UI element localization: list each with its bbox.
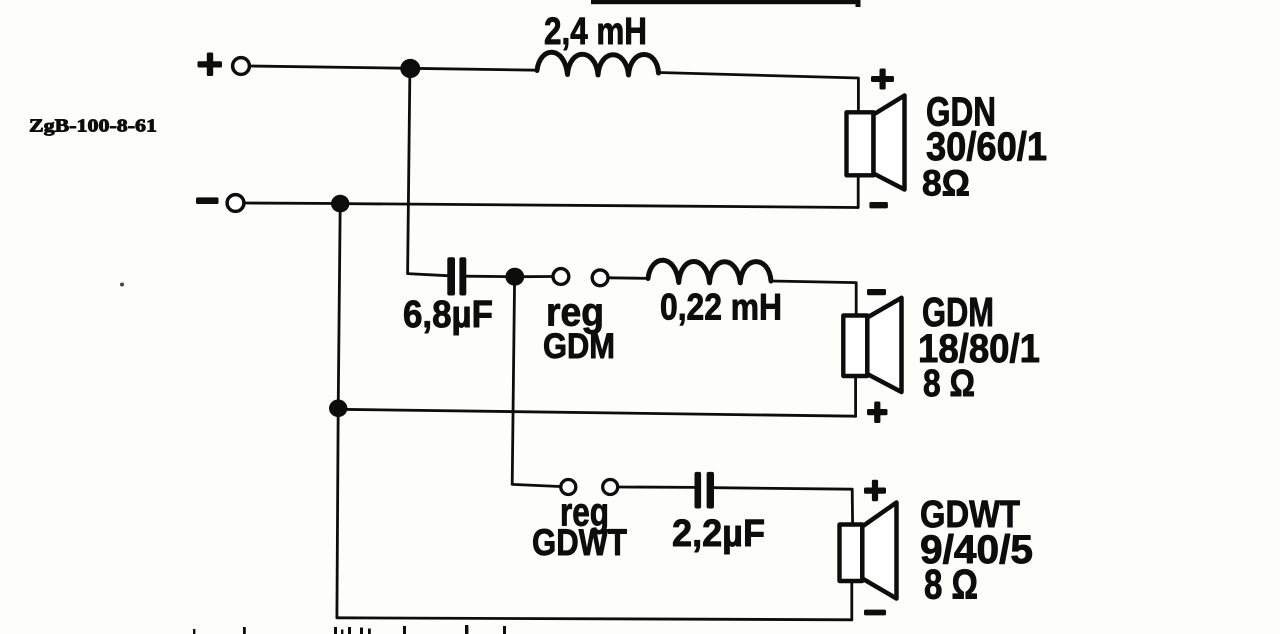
terminal - (open circle): [227, 195, 244, 212]
wire node B to reg GDM circle: [522, 275, 552, 278]
svg-text:8 Ω: 8 Ω: [923, 363, 975, 405]
cropped caption fragments bottom: [193, 625, 506, 634]
plus input label: [198, 53, 223, 77]
label GDN speaker: [922, 89, 1047, 204]
capacitor C1 6,8 uF: [447, 257, 466, 295]
wire bottom rail: [337, 618, 852, 620]
node A (junction dot): [400, 59, 420, 78]
speaker GDN symbol: [847, 96, 905, 190]
reg GDWT terminal circle 1: [561, 480, 576, 495]
wire C1 to node B: [466, 275, 508, 278]
wire reg GDM to L2: [610, 276, 650, 279]
capacitor C2 2,2 uF: [695, 472, 715, 509]
wire - terminal to node D: [245, 202, 340, 205]
svg-text:8 Ω: 8 Ω: [924, 561, 978, 608]
inductor L2 0,22 mH: [648, 260, 771, 283]
label reg GDWT: [532, 491, 627, 564]
wire reg GDWT to C2: [619, 486, 695, 489]
label GDM speaker: [918, 289, 1040, 405]
wire GDWT bottom vertical: [850, 581, 853, 620]
wire cropped top line: [591, 0, 861, 7]
minus input label: [196, 197, 219, 204]
minus label GDM: [867, 289, 886, 295]
wire node C to bottom rail: [337, 409, 338, 618]
svg-text:2,2µF: 2,2µF: [672, 513, 765, 555]
wire GDM bottom vertical: [854, 376, 857, 416]
wire node D to node C: [338, 204, 340, 408]
svg-text:0,22 mH: 0,22 mH: [660, 287, 782, 328]
reg GDM terminal circle 1: [553, 269, 569, 285]
node C (junction dot): [329, 400, 347, 418]
plus label GDM: [867, 402, 888, 424]
wire + terminal to node A to L1: [251, 66, 538, 70]
node D (junction dot): [331, 195, 349, 213]
scan speck: [120, 283, 124, 287]
wire GDN bottom vertical: [857, 176, 860, 208]
svg-text:GDM: GDM: [543, 327, 615, 366]
label reg GDM: [543, 291, 615, 367]
wire GDM return to node C: [338, 409, 855, 416]
wire node D to GDN bottom: [340, 204, 858, 208]
wire C2 to GDWT top: [714, 488, 853, 525]
minus label GDN: [869, 202, 888, 208]
svg-text:6,8µF: 6,8µF: [403, 294, 493, 336]
svg-text:GDWT: GDWT: [532, 522, 627, 563]
svg-text:2,4 mH: 2,4 mH: [544, 11, 647, 53]
node B (junction dot): [505, 268, 524, 286]
wire node A down to C1: [408, 69, 448, 276]
label GDWT speaker: [920, 494, 1033, 608]
wire L2 to GDM top: [771, 281, 856, 316]
plus label GDWT: [864, 480, 886, 502]
wire L1 to GDN top: [659, 73, 859, 113]
svg-text:8Ω: 8Ω: [922, 163, 970, 204]
plus label GDN: [871, 69, 894, 90]
inductor L1 2,4 mH: [537, 52, 659, 75]
speaker GDWT symbol: [840, 503, 897, 599]
svg-text:ZgB-100-8-61: ZgB-100-8-61: [29, 116, 157, 136]
wire node B down to reg GDWT: [512, 278, 560, 487]
minus label GDWT: [864, 610, 886, 616]
terminal + (open circle): [233, 58, 250, 75]
speaker GDM symbol: [843, 298, 901, 392]
reg GDM terminal circle 2: [592, 270, 608, 286]
reg GDWT terminal circle 2: [603, 480, 618, 495]
